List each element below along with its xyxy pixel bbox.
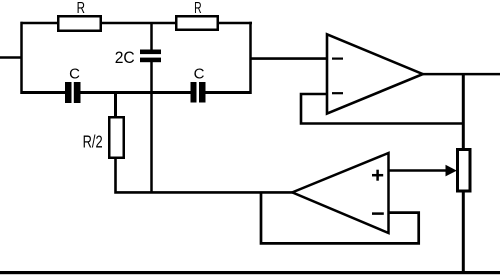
label U2 plus input bbox=[372, 170, 383, 181]
potentiometer P1 bbox=[458, 150, 471, 192]
resistor R2 bbox=[176, 16, 218, 30]
svg-text:R/2: R/2 bbox=[83, 132, 103, 152]
capacitor C right bbox=[191, 82, 206, 103]
wire right vertical rail bbox=[249, 22, 252, 94]
wire 2C bottom vertical bbox=[150, 62, 153, 194]
op-amp U1 bbox=[327, 34, 423, 113]
wire output down to potentiometer top bbox=[462, 74, 465, 149]
svg-text:C: C bbox=[194, 66, 205, 83]
resistor R1 bbox=[58, 16, 101, 31]
wire R/2 bottom to output line bbox=[116, 158, 294, 192]
wire bottom rail segment A bbox=[21, 91, 67, 94]
label U1 bottom input minus bbox=[332, 92, 343, 94]
capacitor C left bbox=[65, 82, 81, 103]
wiper arrow bbox=[446, 165, 457, 177]
wire input stub bbox=[0, 56, 23, 59]
wire op1 noninverting input bbox=[251, 57, 329, 60]
wire potentiometer bottom bbox=[462, 191, 465, 272]
resistor R/2 bbox=[109, 117, 124, 158]
wire bottom rail segment B bbox=[80, 91, 191, 94]
svg-text:R: R bbox=[194, 0, 202, 17]
label U1 top input minus bbox=[332, 57, 343, 59]
wire top rail segment A bbox=[21, 22, 59, 25]
wire top rail segment B bbox=[100, 22, 176, 25]
wire R/2 top stub bbox=[114, 93, 117, 118]
op-amp U2 bbox=[292, 153, 388, 233]
capacitor 2C bbox=[140, 50, 161, 63]
wire U1 output bbox=[422, 73, 500, 76]
wire top rail segment C bbox=[217, 22, 252, 25]
svg-text:R: R bbox=[77, 0, 85, 17]
svg-text:2C: 2C bbox=[115, 48, 135, 67]
wire U1 feedback to inverting input bbox=[301, 94, 463, 124]
wire node to 2C top bbox=[150, 23, 153, 51]
svg-text:C: C bbox=[69, 66, 80, 83]
ground rail bottom border bbox=[0, 271, 500, 274]
label U2 minus input bbox=[372, 212, 384, 215]
wire left vertical rail bbox=[20, 22, 23, 94]
wire bottom rail segment C bbox=[205, 91, 252, 94]
wire U2 plus input to wiper bbox=[388, 169, 447, 172]
wire U2 feedback loop bbox=[261, 192, 419, 243]
